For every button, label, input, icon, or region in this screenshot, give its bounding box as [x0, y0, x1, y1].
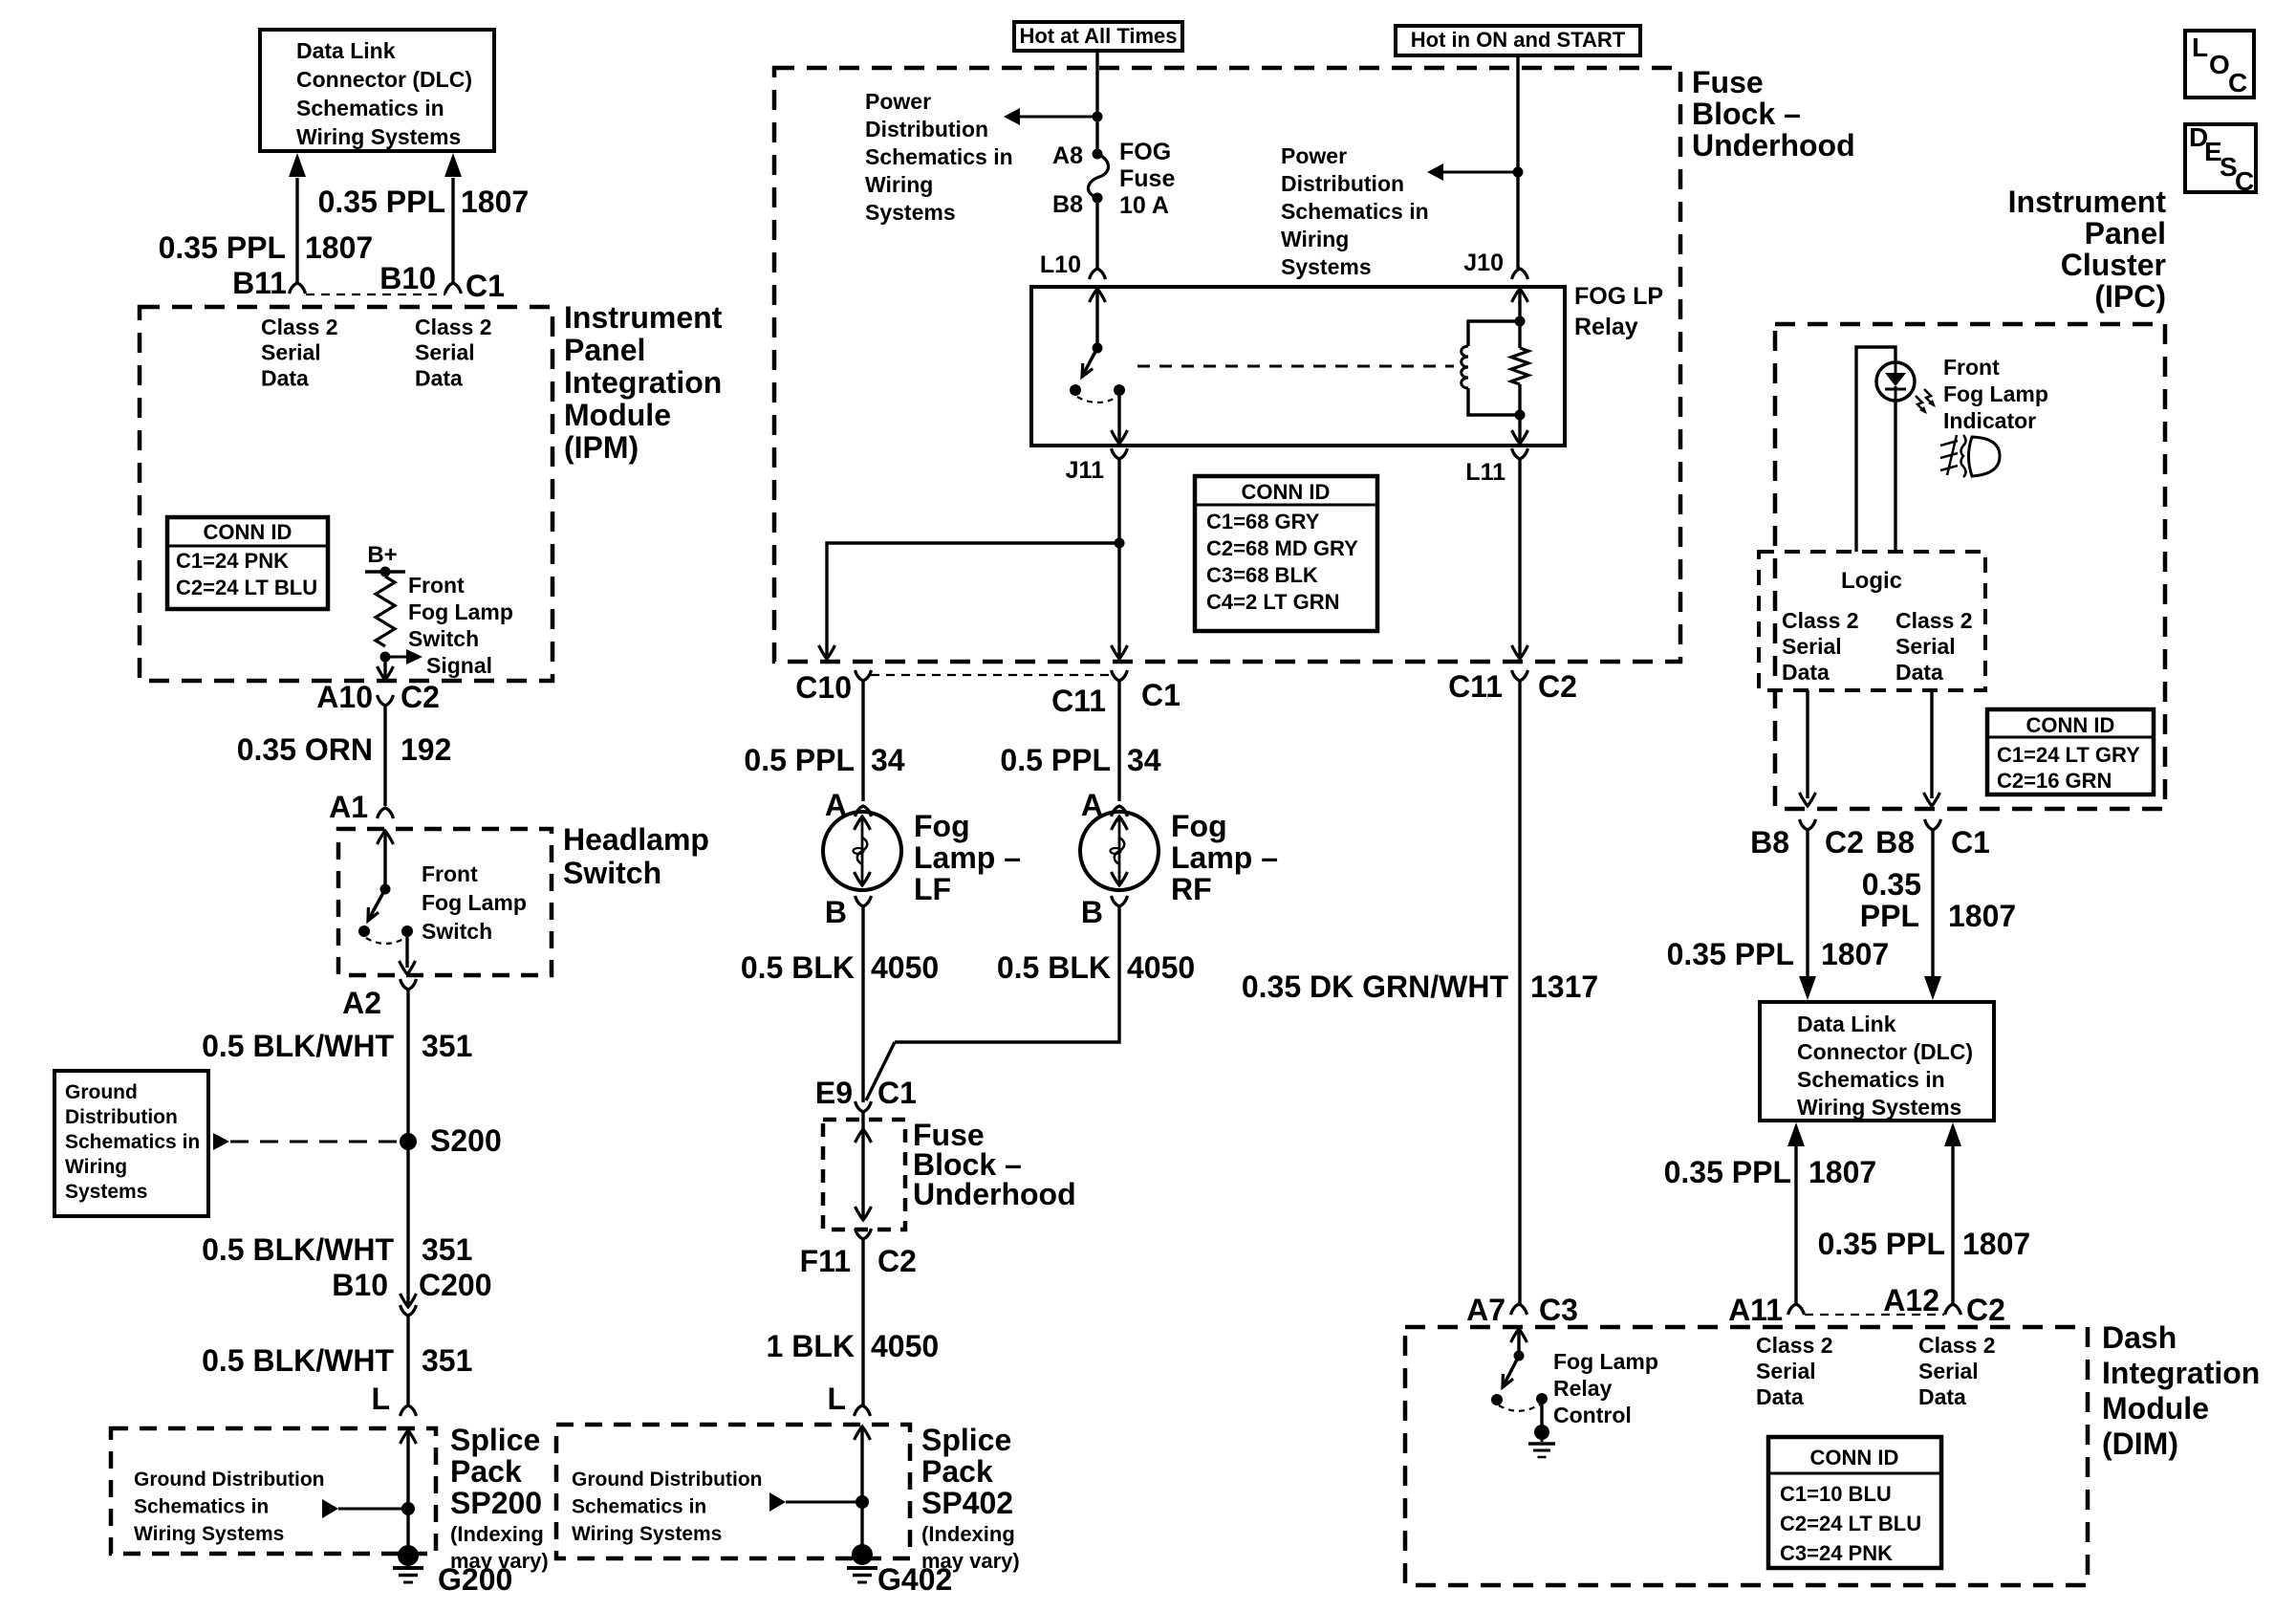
reference arrow inside SP402 [769, 1492, 786, 1512]
wire B (RF) down and over (0.5 BLK 4050) [895, 906, 1119, 1042]
exit arrow at IPM bottom (A10) [378, 666, 394, 680]
switch contact right [401, 925, 413, 937]
svg-text:CONN ID: CONN ID [1810, 1446, 1899, 1469]
svg-text:Wiring Systems: Wiring Systems [296, 124, 461, 149]
svg-text:Connector (DLC): Connector (DLC) [296, 67, 472, 92]
relay coil bottom junction [1515, 410, 1526, 421]
svg-text:Wiring Systems: Wiring Systems [1797, 1095, 1961, 1120]
svg-text:0.35 PPL: 0.35 PPL [1818, 1227, 1945, 1261]
wire A10 to A1 (0.35 ORN 192) [383, 706, 386, 806]
power tag box: Hot in ON and START [1396, 26, 1640, 55]
connector fork B (LF) [856, 896, 872, 906]
connector fork B (RF) [1112, 896, 1128, 906]
wire C200 to L (0.5 BLK/WHT 351) [406, 1316, 409, 1405]
splice node S200 [400, 1133, 417, 1150]
relay coil branch top [1468, 321, 1520, 346]
svg-text:B10: B10 [379, 261, 436, 295]
svg-text:C: C [2235, 166, 2254, 196]
svg-text:B8: B8 [1052, 191, 1083, 218]
connector fork A10/C2 [378, 695, 394, 706]
svg-text:G402: G402 [877, 1562, 952, 1597]
svg-text:0.35 PPL: 0.35 PPL [159, 230, 286, 265]
wire L11 to fuse block bottom [1518, 459, 1521, 657]
CONN ID table (Fuse Block) [1195, 476, 1377, 631]
svg-text:Underhood: Underhood [913, 1177, 1076, 1211]
svg-text:Schematics in: Schematics in [1797, 1067, 1945, 1092]
svg-text:Integration: Integration [564, 365, 722, 400]
wire inside SP402 to ground [860, 1426, 863, 1553]
svg-text:C1=68 GRY: C1=68 GRY [1206, 510, 1320, 533]
tag box DESC [2185, 124, 2256, 192]
svg-text:J10: J10 [1463, 250, 1504, 276]
relay suppression resistor [1511, 348, 1528, 384]
svg-text:C2=68 MD GRY: C2=68 MD GRY [1206, 536, 1358, 560]
wire F11 to L (1 BLK 4050) [861, 1239, 864, 1405]
power distribution tap arrow (right) [1442, 171, 1518, 174]
signal tap arrow (Front Fog Lamp Switch Signal) [385, 656, 407, 659]
reference arrow to S200 [213, 1133, 229, 1150]
relay switch common wire [1095, 289, 1098, 348]
svg-text:Front: Front [422, 861, 478, 886]
icon: front fog lamp symbol [1969, 437, 2001, 476]
svg-text:Hot in ON and START: Hot in ON and START [1411, 28, 1626, 52]
svg-text:LF: LF [914, 872, 951, 906]
svg-text:C2: C2 [877, 1244, 917, 1278]
svg-text:C10: C10 [795, 670, 852, 705]
connector fork L10 [1090, 269, 1106, 279]
fuse FOG 10A element [1088, 154, 1108, 198]
svg-text:Lamp –: Lamp – [914, 840, 1021, 875]
reference box: Data Link Connector (DLC) Schematics in Wiring Systems (right) [1760, 1002, 1994, 1121]
wire A12 to DLC with arrow (0.35 PPL 1807) [1944, 1122, 1961, 1146]
svg-text:Wiring Systems: Wiring Systems [134, 1523, 284, 1545]
ground (DIM internal) [1541, 1432, 1544, 1442]
svg-text:Lamp –: Lamp – [1171, 840, 1278, 875]
relay switch contact right [1114, 384, 1125, 396]
logic box (IPC), dashed [1759, 552, 1985, 690]
svg-text:Dash: Dash [2102, 1320, 2177, 1355]
svg-text:C3=68 BLK: C3=68 BLK [1206, 563, 1318, 587]
wire logic to B8/C1 [1930, 690, 1933, 798]
module box: Dash Integration Module (DIM), dashed [1405, 1327, 2088, 1585]
svg-text:Data Link: Data Link [1797, 1012, 1896, 1036]
svg-text:PPL: PPL [1860, 899, 1919, 933]
reference box: Data Link Connector (DLC) Schematics in Wiring Systems (top left) [260, 30, 494, 151]
indicator branch wiring [1856, 347, 1895, 552]
svg-text:10 A: 10 A [1119, 192, 1169, 219]
svg-text:0.35 PPL: 0.35 PPL [318, 185, 445, 219]
exit arrow at fuse block bottom (C11/C2) [1512, 645, 1528, 659]
svg-text:Schematics in: Schematics in [134, 1496, 269, 1518]
svg-text:0.35 DK GRN/WHT: 0.35 DK GRN/WHT [1242, 969, 1509, 1004]
svg-text:A12: A12 [1883, 1283, 1939, 1317]
svg-text:0.35 ORN: 0.35 ORN [237, 732, 373, 767]
splice junction in SP200 [401, 1502, 415, 1515]
svg-text:C2: C2 [1825, 825, 1864, 860]
CONN ID table (IPC) [1987, 709, 2154, 795]
in-line connector C200 fork [401, 1305, 417, 1316]
wire B8 to L10 [1095, 198, 1098, 269]
svg-text:Splice: Splice [450, 1423, 540, 1457]
connector fork B8/C1 [1925, 819, 1941, 830]
svg-text:Ground Distribution: Ground Distribution [134, 1469, 324, 1491]
svg-text:C1=10 BLU: C1=10 BLU [1780, 1482, 1892, 1506]
svg-text:Power: Power [865, 89, 931, 114]
junction to power distribution (left) [1093, 112, 1103, 122]
svg-text:Front: Front [1943, 355, 2000, 380]
svg-text:1807: 1807 [305, 230, 373, 265]
svg-text:(IPM): (IPM) [564, 430, 639, 465]
entry arrow (fuse block ground path) [856, 1129, 872, 1143]
svg-text:C2: C2 [1966, 1293, 2005, 1327]
module box: Splice Pack SP402, dashed [556, 1425, 910, 1558]
svg-text:B: B [825, 895, 847, 929]
exit arrow at IPC bottom (left) [1800, 793, 1816, 806]
svg-text:Front: Front [408, 573, 465, 598]
svg-text:(IPC): (IPC) [2094, 279, 2166, 314]
lamp: Fog Lamp - LF [823, 812, 901, 890]
connector fork A1 [378, 808, 394, 818]
svg-text:C2: C2 [1538, 669, 1577, 704]
module box: Fuse Block - Underhood, dashed [774, 68, 1680, 662]
wire from resistor to A10 exit [383, 660, 386, 678]
tag box LOC [2185, 31, 2254, 98]
in-line connector C200 arrow [401, 1294, 417, 1307]
svg-text:0.35 PPL: 0.35 PPL [1664, 1155, 1791, 1189]
fuse FOG 10A terminal A8 [1093, 149, 1103, 160]
power tag box: Hot at All Times [1014, 22, 1182, 51]
svg-text:Splice: Splice [921, 1423, 1011, 1457]
svg-text:Data: Data [1918, 1384, 1966, 1409]
relay coil exit arrow [1512, 430, 1528, 444]
svg-text:F11: F11 [800, 1244, 851, 1278]
svg-text:J11: J11 [1066, 457, 1104, 484]
connector fork A12/C2 [1945, 1304, 1961, 1315]
svg-text:(Indexing: (Indexing [921, 1522, 1015, 1546]
relay switch arm [1083, 348, 1097, 375]
svg-text:B8: B8 [1875, 825, 1915, 860]
relay coil feed wire [1518, 289, 1521, 321]
exit arrow at headlamp switch bottom (A2) [400, 961, 416, 974]
svg-text:Distribution: Distribution [865, 117, 988, 142]
connector fork J10 [1512, 269, 1528, 279]
relay control switch pivot [1514, 1351, 1525, 1361]
wire C1 to fog lamp RF (0.5 PPL 34) [1117, 681, 1120, 801]
svg-text:Power: Power [1281, 143, 1347, 168]
svg-text:Fog: Fog [914, 809, 970, 843]
svg-text:4050: 4050 [871, 950, 939, 985]
relay switch dashed arc [1077, 397, 1117, 403]
connector face dashed line A11-A12 [1805, 1314, 1944, 1316]
splice junction in SP402 [856, 1495, 869, 1509]
svg-text:L10: L10 [1040, 251, 1081, 278]
wire inside SP200 to ground [406, 1430, 409, 1553]
wire through fuse block ground path [861, 1112, 864, 1220]
svg-text:Integration: Integration [2102, 1356, 2260, 1390]
wire A2 to S200 (0.5 BLK/WHT 351) [406, 990, 409, 1142]
svg-text:Schematics in: Schematics in [1281, 199, 1429, 224]
wire C11/C2 to A7 (0.35 DK GRN/WHT 1317) [1518, 681, 1521, 1304]
connector fork A7/C3 [1511, 1304, 1527, 1315]
svg-text:1317: 1317 [1530, 969, 1598, 1004]
svg-text:1807: 1807 [1821, 937, 1889, 971]
svg-text:Class 2: Class 2 [261, 315, 338, 339]
wire from Hot at All Times to FOG fuse [1095, 51, 1098, 153]
svg-text:Class 2: Class 2 [415, 315, 492, 339]
exit arrow at fuse block bottom (C10) [819, 645, 835, 659]
svg-text:L: L [827, 1382, 846, 1416]
svg-text:Panel: Panel [2085, 216, 2166, 250]
lamp feed branch wire to C10 [827, 543, 1119, 657]
relay box: FOG LP Relay [1031, 287, 1565, 446]
wire B8/C2 to DLC (0.35 PPL 1807) [1806, 830, 1809, 977]
svg-text:C1: C1 [877, 1076, 917, 1110]
svg-text:Panel: Panel [564, 333, 645, 367]
svg-text:Module: Module [564, 398, 671, 432]
relay switch pivot node [1093, 343, 1103, 354]
lamp: Fog Lamp - RF [1080, 812, 1159, 890]
svg-text:FOG LP: FOG LP [1574, 283, 1663, 310]
svg-text:CONN ID: CONN ID [1242, 480, 1331, 504]
relay switch exit arrow [1112, 430, 1128, 444]
connector fork E9/C1 [856, 1101, 872, 1112]
svg-text:B10: B10 [332, 1268, 388, 1302]
svg-text:Fog Lamp: Fog Lamp [408, 599, 513, 624]
svg-text:Fog Lamp: Fog Lamp [1553, 1349, 1658, 1374]
svg-text:Serial: Serial [1918, 1359, 1979, 1383]
connector fork C10 [856, 670, 872, 681]
connector fork F11/C2 [856, 1229, 872, 1239]
svg-text:Wiring: Wiring [1281, 227, 1349, 251]
svg-text:Instrument: Instrument [2008, 185, 2167, 219]
svg-text:0.5 BLK/WHT: 0.5 BLK/WHT [202, 1029, 394, 1063]
wire S200 to C200 (0.5 BLK/WHT 351) [406, 1142, 409, 1305]
svg-text:351: 351 [422, 1232, 472, 1267]
switch pivot node [380, 884, 391, 895]
svg-text:351: 351 [422, 1029, 472, 1063]
svg-text:(DIM): (DIM) [2102, 1426, 2178, 1461]
relay control switch arm [1504, 1356, 1519, 1385]
svg-text:Data: Data [415, 365, 463, 390]
wire B (LF) down (0.5 BLK 4050) [861, 906, 864, 1102]
svg-text:B: B [1081, 895, 1103, 929]
svg-text:C2=24 LT BLU: C2=24 LT BLU [1780, 1512, 1921, 1535]
connector fork B8/C2 [1800, 819, 1816, 830]
svg-text:Control: Control [1553, 1403, 1632, 1427]
wire C10 to fog lamp LF (0.5 PPL 34) [861, 681, 864, 801]
svg-text:RF: RF [1171, 872, 1212, 906]
svg-text:Data: Data [1895, 660, 1943, 685]
svg-text:Ground Distribution: Ground Distribution [572, 1469, 762, 1491]
reference box: Ground Distribution Schematics in Wiring Systems (left) [54, 1071, 208, 1216]
svg-text:351: 351 [422, 1343, 472, 1378]
switch travel dashed arc [366, 938, 405, 944]
svg-text:C1: C1 [466, 269, 505, 303]
wire A11 to DLC with arrow (0.35 PPL 1807) [1787, 1122, 1805, 1146]
svg-text:Serial: Serial [1895, 634, 1956, 659]
svg-text:192: 192 [401, 732, 451, 767]
svg-text:Distribution: Distribution [1281, 171, 1404, 196]
exit arrow (fuse block ground path) [856, 1207, 872, 1220]
svg-text:4050: 4050 [1127, 950, 1195, 985]
svg-text:Data: Data [1756, 1384, 1804, 1409]
svg-text:Wiring: Wiring [865, 172, 933, 197]
svg-text:Class 2: Class 2 [1918, 1333, 1996, 1358]
connector fork A (LF) [856, 806, 872, 816]
connector fork B11 [290, 283, 306, 294]
svg-text:Schematics in: Schematics in [296, 96, 444, 120]
svg-text:Underhood: Underhood [1692, 128, 1855, 163]
svg-text:0.35 PPL: 0.35 PPL [1667, 937, 1794, 971]
svg-text:Pack: Pack [450, 1454, 522, 1489]
svg-text:Systems: Systems [865, 200, 956, 225]
svg-text:C11: C11 [1448, 669, 1503, 704]
svg-text:Fog Lamp: Fog Lamp [1943, 381, 2048, 406]
svg-text:G200: G200 [438, 1562, 512, 1597]
svg-text:Serial: Serial [415, 340, 475, 365]
svg-text:Instrument: Instrument [564, 300, 723, 335]
relay control dashed arc [1499, 1404, 1540, 1411]
connector fork C11/C2 [1512, 670, 1528, 681]
power distribution tap arrow (left) [1019, 116, 1097, 119]
CONN ID table (DIM) [1768, 1437, 1941, 1568]
connector fork L (SP200) [401, 1405, 417, 1416]
svg-text:C4=2 LT GRN: C4=2 LT GRN [1206, 590, 1340, 614]
svg-text:Hot at All Times: Hot at All Times [1019, 24, 1177, 48]
svg-text:S200: S200 [430, 1123, 502, 1158]
svg-text:Logic: Logic [1841, 568, 1902, 594]
connector fork A2 [401, 979, 417, 990]
svg-text:0.5 PPL: 0.5 PPL [744, 743, 855, 777]
svg-text:Schematics in: Schematics in [865, 144, 1013, 169]
node: resistor output junction [380, 652, 391, 663]
wire from right contact to A2 exit [405, 937, 408, 968]
svg-text:C3: C3 [1539, 1293, 1578, 1327]
svg-text:FOG: FOG [1119, 139, 1171, 165]
resistor: front fog lamp switch pull-up [376, 577, 395, 646]
connector fork J11 [1112, 448, 1128, 459]
relay coil branch bottom [1468, 388, 1520, 415]
svg-text:Block –: Block – [1692, 97, 1801, 131]
svg-text:Serial: Serial [261, 340, 321, 365]
svg-text:E9: E9 [815, 1076, 853, 1110]
connector fork L (SP402) [855, 1405, 871, 1416]
svg-text:SP200: SP200 [450, 1486, 542, 1520]
svg-text:Data: Data [261, 365, 309, 390]
svg-text:Wiring: Wiring [65, 1156, 127, 1178]
wire B11 to DLC with arrow (0.35 PPL 1807) [295, 178, 298, 283]
svg-text:34: 34 [871, 743, 905, 777]
svg-text:SP402: SP402 [921, 1486, 1013, 1520]
connector fork C1 [445, 283, 462, 294]
entry arrow inside headlamp switch [378, 831, 394, 844]
entry arrow inside DIM (A7) [1511, 1329, 1527, 1342]
svg-text:Indicator: Indicator [1943, 408, 2036, 433]
svg-text:Class 2: Class 2 [1895, 608, 1973, 633]
connector fork A (RF) [1112, 806, 1128, 816]
ground G200 [398, 1545, 419, 1566]
svg-text:C1=24 LT GRY: C1=24 LT GRY [1997, 743, 2140, 767]
svg-text:Ground: Ground [65, 1081, 138, 1103]
svg-text:L: L [2192, 33, 2208, 62]
svg-text:C2=24 LT BLU: C2=24 LT BLU [176, 576, 317, 599]
fuse FOG 10A terminal B8 [1093, 193, 1103, 204]
relay coil output wire [1518, 415, 1521, 442]
svg-text:O: O [2209, 50, 2230, 79]
module box: Fuse Block - Underhood (ground path), dashed [823, 1120, 905, 1230]
relay main line segments [1518, 321, 1521, 348]
wire B10/C1 to DLC with arrow (0.35 PPL 1807) [451, 178, 454, 283]
svg-text:C: C [2228, 68, 2247, 98]
svg-text:Signal: Signal [426, 653, 492, 678]
wire J11 down to lamp feed junction [1117, 459, 1120, 657]
wire from Hot in ON and START to J10 [1516, 55, 1519, 269]
module box: Instrument Panel Integration Module (IPM), dashed [140, 307, 552, 681]
svg-text:1807: 1807 [1962, 1227, 2030, 1261]
switch arm (front fog lamp switch) [369, 889, 385, 919]
LED emission arrows [1916, 396, 1925, 412]
connector fork L11 [1512, 448, 1528, 459]
ground G402 [852, 1544, 873, 1565]
relay control contact right [1536, 1393, 1548, 1404]
svg-text:4050: 4050 [871, 1329, 939, 1363]
lamp feed junction node [1115, 538, 1125, 549]
connector fork A11 [1788, 1304, 1805, 1315]
svg-text:Fuse: Fuse [1119, 165, 1175, 192]
svg-text:0.5 BLK: 0.5 BLK [997, 950, 1111, 985]
svg-text:Cluster: Cluster [2061, 248, 2166, 282]
svg-text:Schematics in: Schematics in [572, 1496, 706, 1518]
svg-text:L: L [371, 1382, 390, 1416]
svg-text:Switch: Switch [422, 919, 492, 944]
connector face dashed line between B11 and C1 [306, 294, 445, 295]
svg-text:Serial: Serial [1756, 1359, 1816, 1383]
relay switch contact left [1070, 384, 1081, 396]
reference arrow inside SP200 [322, 1499, 338, 1518]
svg-text:Headlamp: Headlamp [563, 822, 709, 857]
relay switch output wire [1117, 396, 1120, 442]
svg-text:Module: Module [2102, 1391, 2209, 1426]
svg-text:C11: C11 [1051, 684, 1106, 718]
svg-text:Pack: Pack [921, 1454, 993, 1489]
svg-text:1807: 1807 [1809, 1155, 1876, 1189]
entry arrow inside SP200 [401, 1430, 417, 1444]
svg-text:0.5 BLK/WHT: 0.5 BLK/WHT [202, 1343, 394, 1378]
svg-text:1807: 1807 [461, 185, 529, 219]
svg-text:Wiring Systems: Wiring Systems [572, 1523, 722, 1545]
junction to power distribution (right) [1513, 167, 1524, 178]
svg-text:Relay: Relay [1553, 1376, 1613, 1401]
svg-text:A2: A2 [342, 986, 381, 1020]
entry arrow inside SP402 [855, 1426, 871, 1440]
module box: Headlamp Switch, dashed [338, 829, 552, 975]
connector fork C1 (lamp RF feed) [1112, 670, 1128, 681]
svg-text:Systems: Systems [65, 1181, 147, 1203]
svg-text:Data Link: Data Link [296, 38, 396, 63]
svg-text:C3=24 PNK: C3=24 PNK [1780, 1541, 1893, 1565]
module box: Splice Pack SP200, dashed [111, 1428, 436, 1554]
module box: Instrument Panel Cluster (IPC), dashed [1775, 324, 2165, 809]
wire logic to B8/C2 [1806, 690, 1809, 798]
LED: front fog lamp indicator [1876, 362, 1915, 401]
svg-text:Switch: Switch [563, 856, 661, 890]
svg-text:Connector (DLC): Connector (DLC) [1797, 1039, 1973, 1064]
svg-text:C200: C200 [419, 1268, 492, 1302]
svg-text:0.35: 0.35 [1862, 867, 1921, 902]
svg-text:Fuse: Fuse [1692, 65, 1764, 99]
svg-text:A8: A8 [1052, 142, 1083, 169]
svg-text:0.5 BLK/WHT: 0.5 BLK/WHT [202, 1232, 394, 1267]
